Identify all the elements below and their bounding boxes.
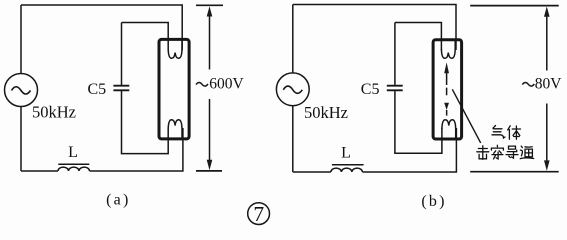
svg-text:50kHz: 50kHz bbox=[32, 103, 76, 122]
svg-text:C5: C5 bbox=[88, 81, 107, 98]
svg-text:L: L bbox=[68, 144, 78, 161]
svg-text:50kHz: 50kHz bbox=[304, 103, 348, 122]
svg-text:(b): (b) bbox=[421, 193, 446, 210]
svg-text:L: L bbox=[341, 145, 351, 162]
svg-text:600V: 600V bbox=[209, 76, 244, 93]
svg-text:(a): (a) bbox=[106, 191, 130, 208]
svg-text:7: 7 bbox=[253, 202, 264, 226]
svg-text:80V: 80V bbox=[535, 76, 563, 93]
svg-text:C5: C5 bbox=[361, 81, 380, 98]
